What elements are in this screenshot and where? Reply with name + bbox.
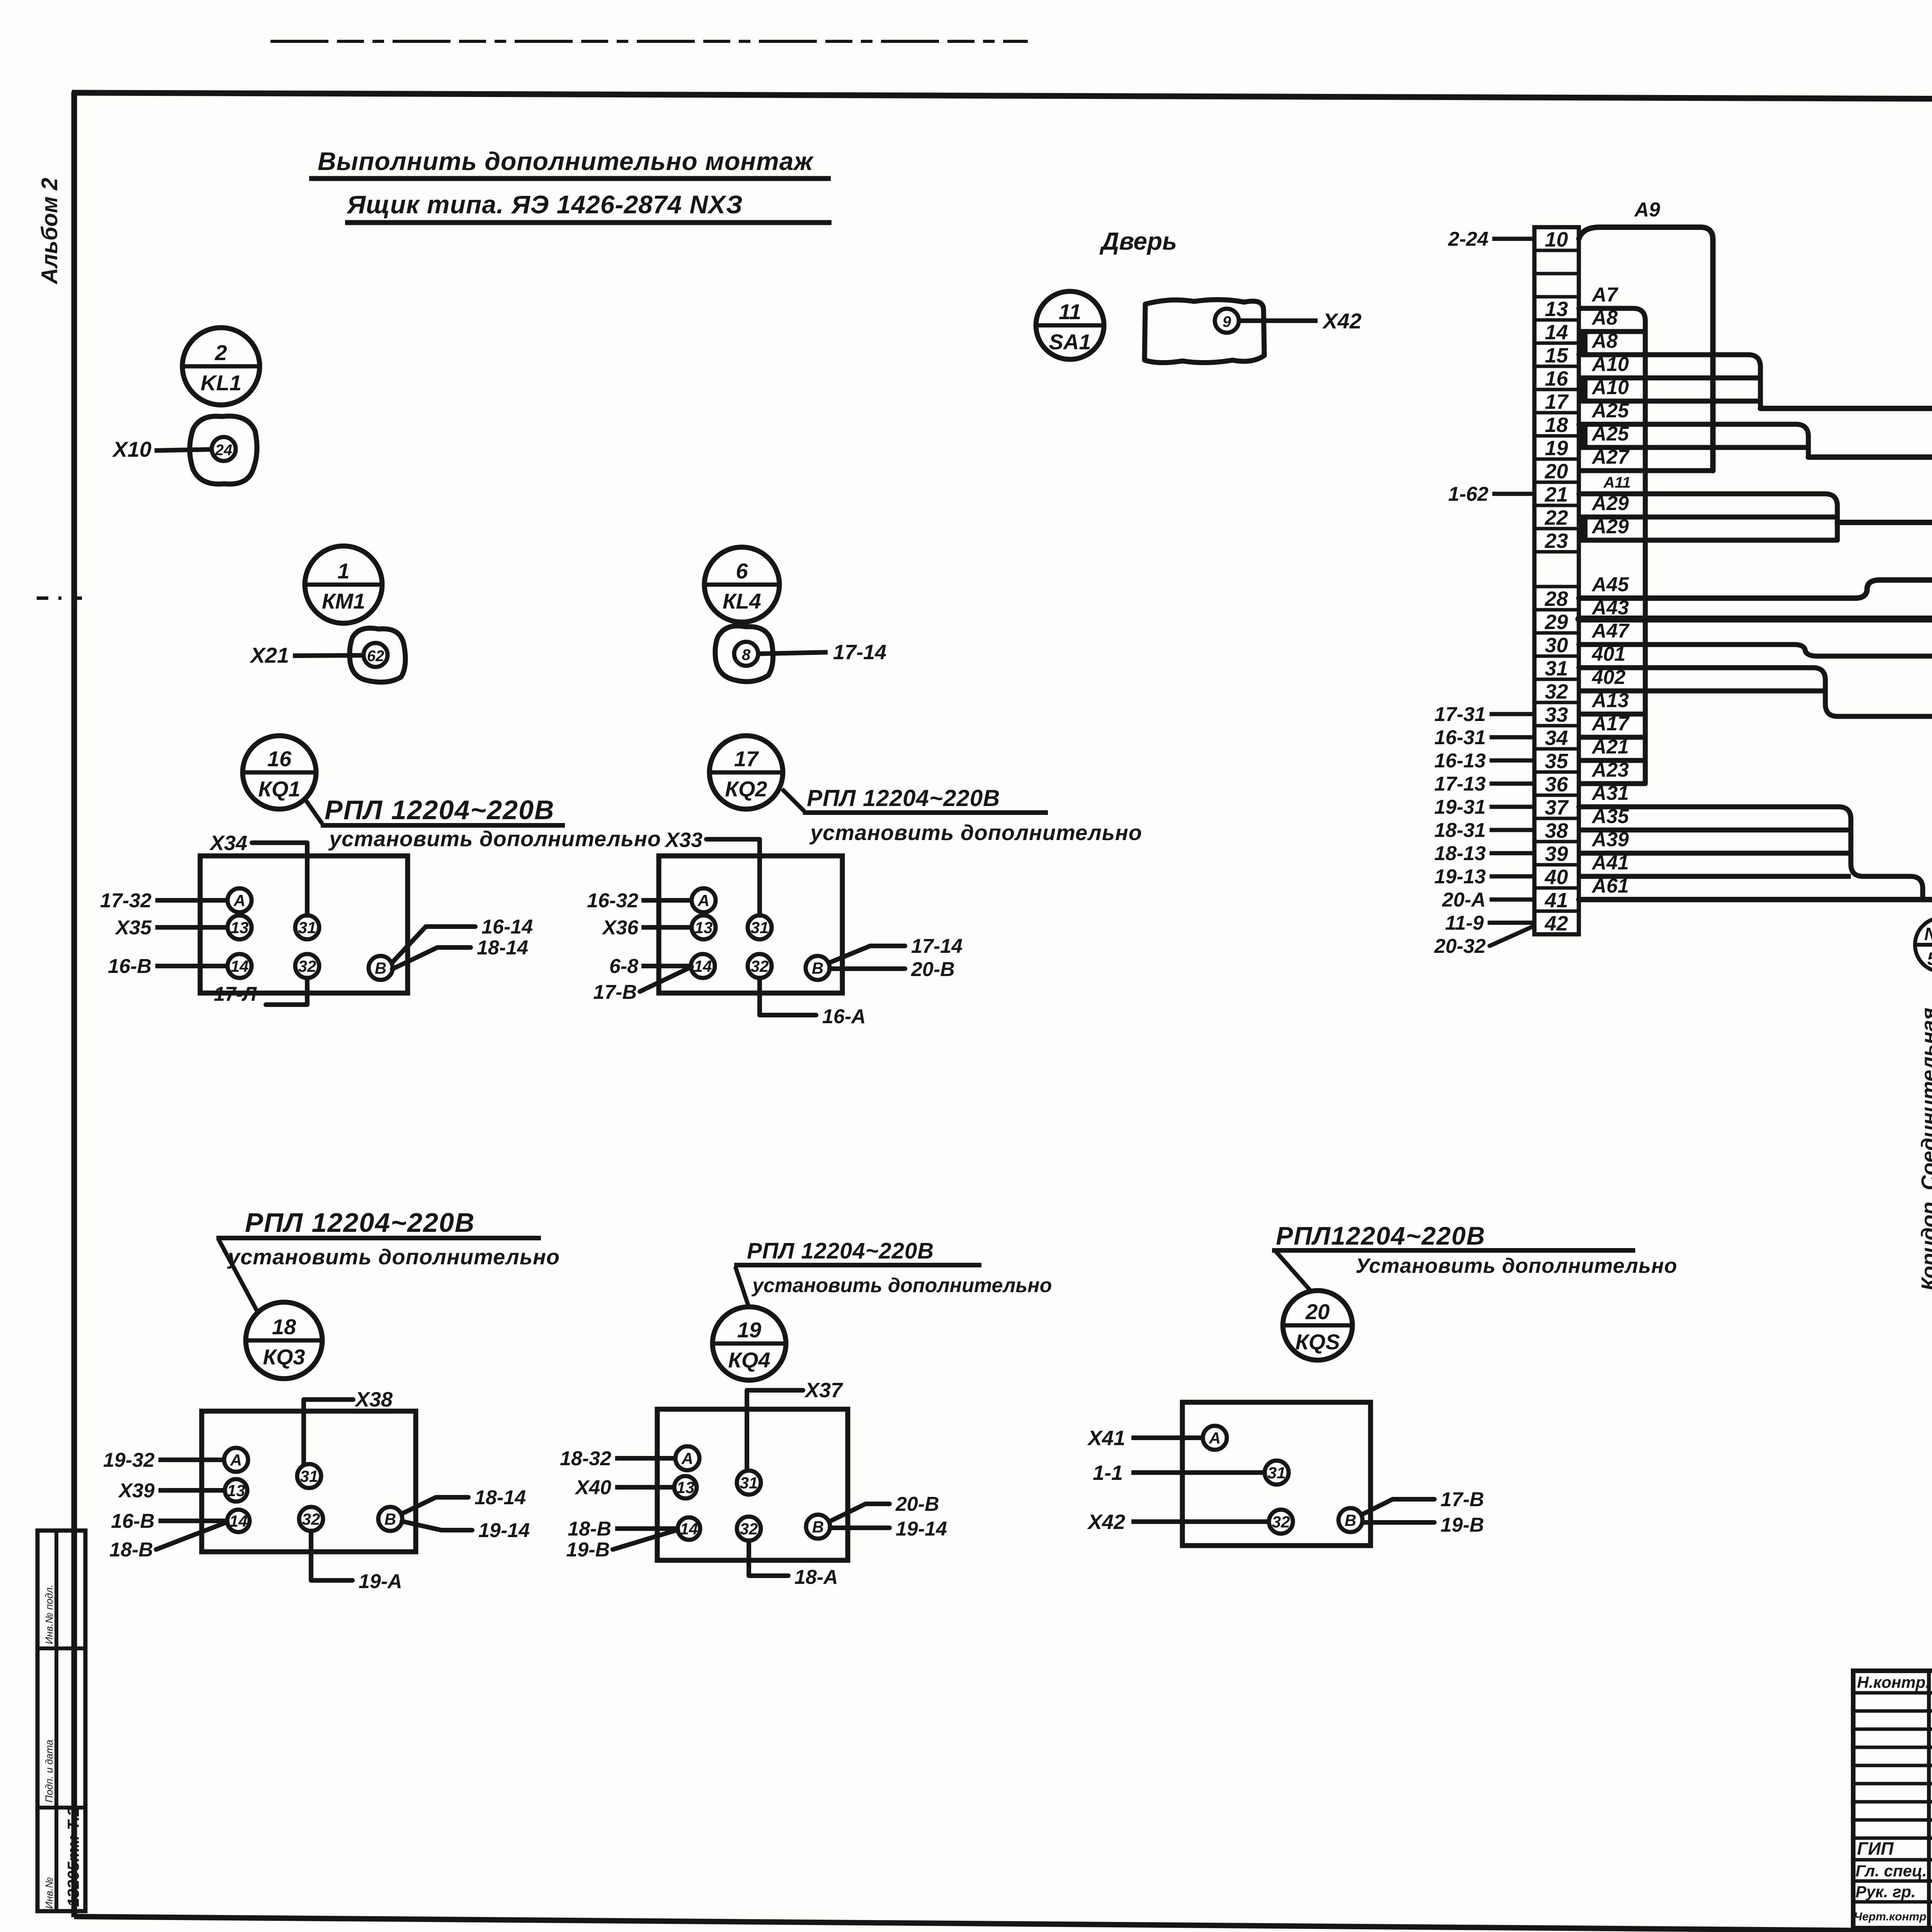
svg-text:19: 19	[1545, 437, 1568, 460]
signature table	[1853, 1671, 1932, 1928]
svg-text:установить дополнительно: установить дополнительно	[809, 820, 1142, 845]
signature row Gl.spets	[1855, 1859, 1932, 1883]
KQ3 wire X38 to pin 31	[304, 1388, 393, 1464]
terminal jumper 22-23	[1581, 518, 1588, 539]
KQ4 wire 18-B to pin 14	[568, 1518, 677, 1540]
svg-text:31: 31	[300, 1467, 318, 1485]
svg-text:Х33: Х33	[664, 828, 702, 852]
svg-text:А: А	[230, 1451, 242, 1469]
svg-text:20: 20	[1305, 1299, 1330, 1324]
KQ3 pin 13	[225, 1479, 247, 1502]
wire label А43	[1591, 597, 1629, 619]
header note line 1	[309, 147, 831, 179]
KQ2 pin 32	[748, 954, 772, 978]
svg-text:В: В	[375, 959, 386, 977]
terminal 37	[1545, 796, 1569, 819]
svg-text:2-24: 2-24	[1448, 228, 1488, 250]
wire terminal 32 stub	[1579, 689, 1825, 694]
KQ2 wire X33 to pin 31	[664, 828, 760, 915]
svg-text:14: 14	[680, 1520, 698, 1538]
KQ1 wire pin 32 to 17-L	[214, 978, 307, 1005]
svg-text:18-В: 18-В	[109, 1539, 153, 1561]
note RPL for KQS	[1272, 1221, 1677, 1292]
svg-text:КQS: КQS	[1295, 1330, 1340, 1354]
svg-text:32: 32	[302, 1510, 320, 1528]
connector blob with core 8 (KL4)	[715, 626, 886, 682]
wire terminal 14 stub	[1579, 329, 1645, 334]
terminal 20	[1544, 460, 1568, 483]
wire label А11	[1603, 474, 1631, 491]
KQ4 wire pin B to 20-B	[829, 1493, 939, 1522]
svg-text:Рук. гр.: Рук. гр.	[1855, 1883, 1916, 1901]
svg-text:Инв.№: Инв.№	[43, 1877, 55, 1909]
svg-text:18-13: 18-13	[1434, 842, 1486, 865]
KQ2 pin A	[692, 888, 716, 912]
svg-text:17: 17	[1545, 390, 1569, 413]
svg-text:17-31: 17-31	[1434, 703, 1486, 726]
terminal 40	[1544, 866, 1568, 889]
KQ2 wire X36 to pin 13	[601, 917, 692, 939]
svg-text:13: 13	[1545, 298, 1568, 321]
svg-text:15: 15	[1545, 344, 1568, 367]
terminal 18	[1545, 413, 1568, 437]
svg-text:14: 14	[231, 957, 249, 975]
KQ3 pin B	[378, 1507, 402, 1531]
svg-text:32: 32	[298, 957, 316, 975]
svg-text:А: А	[1209, 1429, 1221, 1447]
relay KQ1 designator	[243, 736, 316, 809]
wire terminal 41 bus A61 to ND1 507 and SK2 drop	[1579, 900, 1932, 1287]
relay KQ2 designator	[709, 736, 783, 809]
wire label А29	[1591, 492, 1629, 515]
svg-text:А9: А9	[1634, 199, 1660, 221]
connector X10 blob with core 24	[112, 416, 257, 484]
svg-text:16: 16	[267, 747, 292, 771]
svg-text:20-А: 20-А	[1442, 889, 1486, 911]
wire label А21	[1591, 736, 1629, 758]
KQ3 pin 31	[297, 1464, 321, 1488]
terminal 23	[1544, 529, 1568, 553]
svg-text:29: 29	[1544, 611, 1568, 634]
terminal 42	[1544, 912, 1568, 935]
terminal 28	[1544, 587, 1568, 611]
wire label А27	[1591, 446, 1629, 468]
svg-text:16-А: 16-А	[822, 1005, 866, 1028]
wire trunk T8 terminals 37-40	[1579, 807, 1923, 899]
svg-text:31: 31	[298, 918, 316, 937]
KQ1 pin 13	[228, 915, 252, 939]
svg-text:19-В: 19-В	[566, 1539, 610, 1561]
KQ4 wire 18-32 to pin A	[560, 1447, 675, 1470]
header note line 2	[345, 190, 832, 223]
top dashed line	[270, 40, 1028, 43]
svg-text:установить дополнительно: установить дополнительно	[227, 1245, 560, 1269]
destination label corridor SK2	[1917, 1008, 1932, 1291]
node 17-13 to terminal 36	[1434, 773, 1534, 795]
terminal jumper 16-17	[1581, 379, 1588, 400]
svg-text:20-В: 20-В	[895, 1493, 939, 1515]
wire terminal 34 stub	[1579, 735, 1645, 740]
svg-text:40: 40	[1544, 866, 1568, 889]
wire terminal 39 stub	[1579, 851, 1851, 856]
KQ3 wire X39 to pin 13	[117, 1480, 224, 1502]
KQ3 pin 32	[299, 1507, 323, 1531]
svg-text:32: 32	[1272, 1513, 1290, 1531]
svg-text:Гл. спец.: Гл. спец.	[1855, 1862, 1927, 1880]
terminal 19	[1545, 437, 1568, 460]
svg-text:23: 23	[1544, 529, 1568, 553]
wire terminal 40 stub	[1579, 874, 1851, 879]
svg-text:18-31: 18-31	[1434, 819, 1486, 842]
svg-text:19-А: 19-А	[359, 1570, 402, 1593]
KQ1 wire 16-B to pin 14	[108, 955, 228, 978]
svg-text:17-32: 17-32	[100, 889, 151, 912]
svg-text:20: 20	[1544, 460, 1568, 483]
wire terminal 28 to bus 501 and AB1 drop	[1579, 580, 1932, 1338]
album label (rotated)	[37, 178, 62, 285]
svg-text:КQ2: КQ2	[725, 777, 767, 801]
wire label А9	[1634, 199, 1660, 221]
wire terminal 22 stub	[1579, 515, 1837, 520]
KQ1 wire X34 to pin 31	[209, 832, 307, 915]
svg-text:А: А	[697, 891, 709, 910]
svg-text:А11: А11	[1603, 474, 1631, 491]
svg-text:РПЛ 12204~220В: РПЛ 12204~220В	[747, 1238, 934, 1264]
svg-text:14: 14	[694, 957, 712, 975]
svg-text:КQ4: КQ4	[728, 1348, 770, 1372]
svg-text:19-В: 19-В	[1440, 1514, 1484, 1536]
svg-text:19-13: 19-13	[1434, 866, 1486, 888]
wire terminal 35 stub	[1579, 758, 1645, 763]
bus to ND1 502 and SB5 drop	[1760, 408, 1932, 1338]
KQ1 pin 31	[295, 915, 319, 939]
contactor KM1 designator	[305, 546, 382, 623]
terminal 14	[1545, 321, 1568, 344]
terminal strip body	[1534, 227, 1579, 934]
svg-text:6: 6	[736, 559, 748, 583]
relay KQ4 designator	[713, 1307, 786, 1380]
relay box KQ2	[659, 856, 842, 993]
wire terminal 19 stub	[1579, 445, 1808, 450]
terminal 39	[1545, 842, 1568, 866]
svg-text:11: 11	[1059, 299, 1081, 324]
wire terminal 23 stub	[1579, 538, 1837, 543]
svg-text:33: 33	[1545, 703, 1568, 726]
svg-text:18-32: 18-32	[560, 1447, 611, 1470]
KQ4 wire X37 to pin 31	[747, 1379, 844, 1470]
svg-text:13: 13	[677, 1478, 695, 1497]
door switch blob with core 9 (to X42)	[1145, 299, 1362, 362]
svg-text:установить дополнительно: установить дополнительно	[328, 827, 661, 851]
svg-text:17-14: 17-14	[911, 935, 963, 957]
KQ4 wire 19-B to pin 14	[566, 1530, 678, 1561]
svg-text:18-А: 18-А	[794, 1566, 838, 1588]
wire label А35	[1591, 805, 1629, 828]
svg-text:32: 32	[740, 1520, 758, 1538]
KQS wire X42 to pin 32	[1087, 1510, 1269, 1534]
relay box KQ3	[202, 1411, 416, 1552]
svg-text:Коридор. Соединительная: Коридор. Соединительная	[1917, 1008, 1932, 1291]
svg-text:Установить дополнительно: Установить дополнительно	[1355, 1254, 1677, 1277]
terminal jumper 14-15	[1581, 332, 1588, 354]
wire label А10	[1591, 376, 1629, 399]
KQ3 wire pin B to 19-14	[402, 1519, 530, 1542]
terminal jumper 18-19	[1581, 425, 1588, 446]
wire label А25	[1591, 400, 1629, 422]
wire trunk T2 terminals 15-17 to bus 502	[1579, 355, 1760, 408]
svg-text:Выполнить дополнительно монтаж: Выполнить дополнительно монтаж	[318, 147, 814, 175]
KQ2 wire pin B to 17-14	[829, 935, 963, 963]
svg-text:16-31: 16-31	[1434, 726, 1486, 749]
terminal 36	[1545, 773, 1568, 796]
svg-text:Подп. и дата: Подп. и дата	[43, 1740, 55, 1803]
node 20-A to terminal 41	[1442, 889, 1534, 911]
KQ2 pin 14	[691, 954, 715, 978]
terminal 22	[1544, 506, 1568, 529]
svg-text:В: В	[812, 1518, 824, 1536]
svg-text:507: 507	[1927, 949, 1932, 969]
relay KQ3 designator	[246, 1302, 322, 1379]
svg-text:11-9: 11-9	[1445, 912, 1484, 934]
svg-text:8: 8	[742, 646, 751, 663]
svg-text:РПЛ12204~220В: РПЛ12204~220В	[1276, 1221, 1486, 1250]
door label	[1099, 227, 1177, 255]
wire trunk T7 terminals 31,32 to bus 504	[1579, 668, 1932, 1338]
svg-text:А7: А7	[1591, 284, 1619, 306]
node 16-31 to terminal 34	[1434, 726, 1534, 749]
wire label А39	[1591, 828, 1629, 851]
bus to ND1 503 and SB6 drop	[1808, 457, 1932, 1338]
svg-text:Инв.№ подл.: Инв.№ подл.	[43, 1585, 55, 1644]
svg-text:РПЛ 12204~220В: РПЛ 12204~220В	[807, 785, 1000, 811]
wire label А10	[1591, 353, 1629, 376]
wire terminal 17 stub	[1579, 399, 1760, 404]
wire label А23	[1591, 759, 1629, 781]
KQ2 pin B	[806, 956, 830, 980]
svg-text:19-14: 19-14	[478, 1519, 530, 1542]
signature row N.kontr	[1857, 1672, 1932, 1692]
svg-text:Дверь: Дверь	[1099, 227, 1177, 255]
wire terminal 36 stub	[1579, 781, 1645, 786]
KQ4 wire X40 to pin 13	[574, 1476, 674, 1499]
svg-text:13: 13	[227, 1481, 245, 1500]
terminal 13	[1545, 298, 1568, 321]
KQ4 pin B	[806, 1515, 830, 1539]
svg-text:28: 28	[1544, 587, 1568, 611]
svg-text:19-14: 19-14	[896, 1518, 947, 1540]
svg-text:18: 18	[1545, 413, 1568, 437]
svg-text:14: 14	[1545, 321, 1568, 344]
wire terminal 33 stub	[1579, 712, 1645, 717]
svg-text:31: 31	[1545, 657, 1568, 680]
wire trunk T1 terminals 13,14,33-36	[1579, 308, 1645, 784]
svg-text:18-14: 18-14	[477, 937, 528, 959]
switch SA1 designator	[1036, 291, 1104, 359]
svg-text:16-14: 16-14	[481, 916, 533, 938]
wire terminal 30 bus to ND1 500 and AT1.1 drop	[1579, 645, 1932, 1338]
KQ4 pin 31	[737, 1471, 761, 1495]
wire label 402	[1592, 666, 1626, 689]
svg-text:31: 31	[751, 918, 769, 937]
svg-text:9: 9	[1223, 313, 1231, 330]
svg-text:32: 32	[1545, 680, 1568, 703]
KQ1 wire pin B to 18-14	[392, 937, 528, 969]
svg-text:РПЛ 12204~220В: РПЛ 12204~220В	[325, 795, 554, 825]
node 20-32 to terminal 42	[1434, 926, 1534, 957]
svg-text:30: 30	[1545, 634, 1568, 657]
svg-text:17-В: 17-В	[593, 981, 637, 1003]
relay box KQS	[1182, 1402, 1371, 1546]
svg-text:Х42: Х42	[1087, 1510, 1125, 1534]
KQ3 wire 19-32 to pin A	[103, 1449, 224, 1471]
svg-text:А: А	[233, 891, 245, 910]
svg-text:КL4: КL4	[723, 589, 761, 613]
wire terminal 38 stub	[1579, 828, 1851, 833]
svg-text:А47: А47	[1591, 620, 1629, 642]
KQ1 pin 32	[295, 954, 319, 978]
KQ1 pin A	[228, 888, 252, 912]
node 17-31 to terminal 33	[1434, 703, 1534, 726]
svg-text:2: 2	[214, 340, 227, 365]
KQS pin B	[1338, 1508, 1362, 1532]
svg-text:20-32: 20-32	[1434, 935, 1486, 957]
KQ4 wire pin 32 to 18-A	[749, 1541, 838, 1588]
KQ3 wire 18-B to pin 14	[109, 1522, 227, 1561]
svg-text:19-31: 19-31	[1434, 796, 1486, 818]
svg-text:16-В: 16-В	[108, 955, 151, 978]
signature row Ruk.gr	[1855, 1882, 1932, 1902]
svg-text:А: А	[681, 1449, 693, 1468]
terminal 29	[1544, 611, 1568, 634]
svg-text:38: 38	[1545, 819, 1568, 842]
KQ4 pin 14	[678, 1517, 700, 1540]
relay box KQ4	[657, 1409, 848, 1560]
svg-text:17-В: 17-В	[1440, 1488, 1484, 1511]
svg-text:Ящик типа. ЯЭ 1426-2874 NХЗ: Ящик типа. ЯЭ 1426-2874 NХЗ	[346, 190, 743, 219]
wire label 401	[1592, 643, 1626, 665]
svg-text:Х42: Х42	[1322, 309, 1362, 333]
svg-text:13: 13	[231, 918, 249, 937]
KQ2 pin 31	[748, 915, 772, 939]
relay KL1 designator	[182, 328, 260, 405]
KQ4 pin 32	[737, 1517, 761, 1541]
svg-text:А45: А45	[1591, 573, 1629, 596]
svg-text:Х35: Х35	[114, 917, 152, 939]
svg-text:КQ3: КQ3	[263, 1345, 305, 1369]
svg-text:18-14: 18-14	[474, 1486, 526, 1509]
KQ1 wire pin B to 16-14	[392, 916, 533, 963]
node 11-9 to terminal 42	[1445, 912, 1534, 934]
svg-text:NД1: NД1	[1924, 924, 1932, 944]
svg-text:16-13: 16-13	[1434, 750, 1486, 772]
svg-text:Х21: Х21	[249, 643, 289, 667]
node 1-62 to terminal 21	[1448, 483, 1534, 505]
terminal 31	[1545, 657, 1568, 680]
wire terminal 29 bus to ND1 505 and AB2 drop	[1579, 619, 1932, 1338]
node 18-31 to terminal 38	[1434, 819, 1534, 842]
KQ3 wire 16-B to pin 14	[111, 1510, 227, 1532]
KQ4 pin A	[675, 1446, 699, 1470]
terminal 35	[1545, 750, 1568, 773]
wire terminal 16 stub	[1579, 376, 1760, 381]
svg-text:24: 24	[215, 442, 233, 459]
relay box KQ1	[200, 856, 408, 993]
svg-text:10: 10	[1545, 228, 1568, 251]
note RPL for KQ4	[734, 1238, 1052, 1306]
node 19-31 to terminal 37	[1434, 796, 1534, 818]
terminal 34	[1545, 726, 1568, 750]
svg-text:14: 14	[230, 1512, 248, 1530]
wire trunk T3 terminals 18,19 to bus 503	[1579, 424, 1808, 457]
svg-text:17-13: 17-13	[1434, 773, 1486, 795]
svg-text:19-32: 19-32	[103, 1449, 155, 1471]
wire label А31	[1591, 782, 1629, 804]
KQ2 wire 16-32 to pin A	[587, 889, 692, 912]
svg-text:39: 39	[1545, 842, 1568, 866]
wire label А61	[1591, 875, 1629, 897]
svg-text:КQ1: КQ1	[258, 777, 300, 801]
terminal 17	[1545, 390, 1569, 413]
KQ2 pin 13	[692, 915, 716, 939]
KQS wire pin B to 17-B	[1362, 1488, 1484, 1515]
svg-text:34: 34	[1545, 726, 1568, 750]
svg-text:1-1: 1-1	[1093, 1461, 1123, 1485]
terminal 30	[1545, 634, 1568, 657]
wire label А47	[1591, 620, 1629, 642]
node 19-13 to terminal 40	[1434, 866, 1534, 888]
svg-text:Альбом 2: Альбом 2	[37, 178, 62, 285]
terminal 32	[1545, 680, 1568, 703]
svg-text:20-В: 20-В	[911, 958, 955, 981]
KQS wire 1-1 to pin 31	[1093, 1461, 1264, 1485]
terminal 15	[1545, 344, 1568, 367]
KQ2 wire 17-B to pin 14	[593, 967, 692, 1003]
svg-text:РПЛ 12204~220В: РПЛ 12204~220В	[245, 1207, 475, 1238]
relay KQS designator	[1283, 1291, 1352, 1360]
svg-text:19: 19	[737, 1318, 761, 1342]
wire terminal 20 stub	[1579, 468, 1713, 473]
wire label А17	[1591, 713, 1629, 735]
KQ3 pin 14	[227, 1510, 250, 1532]
svg-text:установить дополнительно: установить дополнительно	[751, 1274, 1052, 1297]
wire label А8	[1591, 307, 1618, 329]
svg-text:17: 17	[734, 747, 759, 771]
svg-text:1: 1	[337, 559, 349, 583]
connector X21 blob with core 62	[249, 628, 405, 682]
svg-text:13: 13	[695, 918, 713, 937]
svg-text:В: В	[812, 959, 823, 977]
bus to ND1 506 and AT1.2 drop	[1837, 522, 1932, 1338]
KQS pin A	[1203, 1426, 1227, 1450]
svg-text:Н.контр.: Н.контр.	[1857, 1673, 1930, 1691]
svg-text:41: 41	[1544, 889, 1568, 912]
note RPL for KQ2	[782, 785, 1142, 845]
svg-text:Х36: Х36	[601, 917, 639, 939]
svg-text:18-В: 18-В	[568, 1518, 611, 1540]
KQ4 pin 13	[674, 1476, 697, 1498]
terminal 16	[1545, 367, 1568, 390]
svg-text:36: 36	[1545, 773, 1568, 796]
svg-text:16-32: 16-32	[587, 889, 638, 912]
KQ3 wire pin B to 18-14	[401, 1486, 526, 1514]
signature row GIP	[1857, 1838, 1932, 1859]
svg-text:1-62: 1-62	[1448, 483, 1488, 505]
svg-text:42: 42	[1544, 912, 1568, 935]
KQ3 wire pin 32 to 19-A	[311, 1531, 402, 1593]
svg-text:В: В	[1345, 1511, 1356, 1529]
terminal 41	[1544, 889, 1568, 912]
svg-text:16-В: 16-В	[111, 1510, 155, 1532]
